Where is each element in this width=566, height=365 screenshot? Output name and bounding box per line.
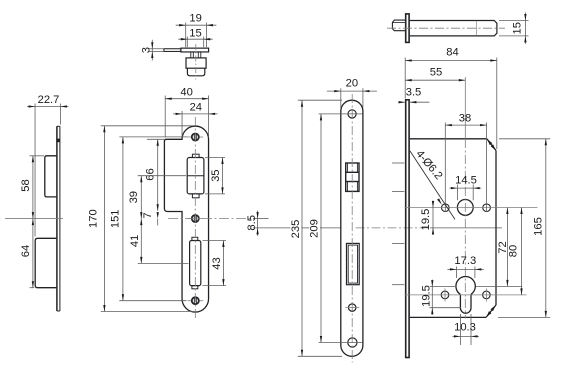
svg-text:58: 58 — [20, 179, 32, 191]
svg-text:15: 15 — [512, 22, 524, 34]
svg-text:170: 170 — [87, 209, 99, 228]
svg-text:43: 43 — [211, 257, 223, 269]
svg-text:3: 3 — [141, 47, 153, 53]
svg-text:64: 64 — [20, 245, 32, 257]
svg-text:40: 40 — [180, 86, 192, 98]
svg-text:3.5: 3.5 — [406, 87, 422, 99]
svg-text:15: 15 — [189, 27, 201, 39]
svg-text:19.5: 19.5 — [420, 209, 432, 231]
svg-text:19: 19 — [189, 12, 201, 24]
svg-text:41: 41 — [129, 235, 141, 247]
svg-text:55: 55 — [430, 67, 442, 79]
svg-text:7: 7 — [142, 212, 154, 218]
svg-text:66: 66 — [144, 168, 156, 180]
svg-text:22.7: 22.7 — [38, 94, 60, 106]
svg-text:35: 35 — [210, 169, 222, 181]
svg-text:20: 20 — [346, 78, 358, 90]
svg-text:151: 151 — [109, 209, 121, 228]
svg-text:17.3: 17.3 — [454, 255, 476, 267]
svg-text:80: 80 — [507, 245, 519, 257]
svg-text:10.3: 10.3 — [454, 321, 476, 333]
svg-text:39: 39 — [128, 191, 140, 203]
svg-text:14.5: 14.5 — [455, 174, 477, 186]
svg-text:19.5: 19.5 — [421, 285, 433, 307]
svg-text:24: 24 — [190, 101, 202, 113]
svg-text:209: 209 — [308, 219, 320, 238]
svg-text:38: 38 — [459, 112, 471, 124]
svg-text:8.5: 8.5 — [246, 215, 258, 231]
svg-text:235: 235 — [290, 220, 302, 239]
svg-text:84: 84 — [446, 47, 458, 59]
svg-text:165: 165 — [532, 217, 544, 236]
